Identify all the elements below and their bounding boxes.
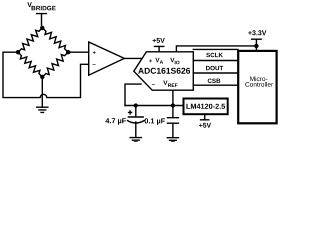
label LM4120-2.5 xyxy=(186,104,225,109)
wire lower interconnect xyxy=(193,84,238,86)
node VREF-C2 junction xyxy=(171,103,175,107)
wire bridge right node to op-amp non-inverting input xyxy=(68,51,88,53)
wire VIO pin to +3.3V rail xyxy=(176,46,256,52)
wire ADC minus input to VREF node xyxy=(125,84,141,105)
label Micro-Controller line1 xyxy=(250,76,267,81)
label VBRIDGE xyxy=(27,2,32,7)
wire bridge left node to op-amp inverting input xyxy=(3,52,89,97)
capacitor C2 0.1uF xyxy=(167,106,178,138)
resistor bridge R-botleft xyxy=(18,52,42,77)
wire CSB xyxy=(193,72,238,74)
label ADC minus pin xyxy=(152,83,155,86)
power terminal +5V (LM4120) xyxy=(200,114,210,120)
label DOUT xyxy=(206,66,223,70)
label VREF pin xyxy=(163,81,167,85)
wire VREF rail xyxy=(125,105,184,107)
resistor bridge R-botright xyxy=(42,52,68,77)
label 0.1uF xyxy=(145,118,165,125)
wire bridge bottom node to ground xyxy=(41,77,43,107)
IC LM4120-2.5 box xyxy=(184,99,228,115)
label ADC plus pin xyxy=(149,59,152,62)
power terminal VBRIDGE xyxy=(37,14,47,28)
ground bridge xyxy=(37,107,48,112)
node bridge bottom xyxy=(40,75,44,79)
power terminal +5V (ADC) xyxy=(154,46,163,51)
wire op-amp output to ADC xyxy=(124,57,142,59)
resistor bridge R-topright xyxy=(42,28,68,52)
wire DOUT xyxy=(193,60,238,62)
label VIO pin xyxy=(170,58,174,62)
IC ADC161S626 outline xyxy=(134,52,194,90)
node bridge top xyxy=(40,26,44,30)
block Micro-Controller box xyxy=(238,51,276,123)
ground C2 xyxy=(167,138,178,142)
resistor bridge R-topleft xyxy=(18,28,42,52)
label 4.7uF xyxy=(106,118,126,125)
node bridge right xyxy=(66,50,70,54)
ground C1 xyxy=(130,138,141,142)
op-amp plus sign xyxy=(93,51,96,54)
node +3.3V junction xyxy=(254,44,258,48)
label VA pin xyxy=(155,58,159,62)
op-amp U1 xyxy=(89,42,125,75)
label +3.3V xyxy=(248,30,266,35)
power terminal +3.3V xyxy=(252,39,262,46)
op-amp minus sign xyxy=(93,63,96,66)
node VREF-C1 junction xyxy=(134,103,138,107)
label +5V (ADC) xyxy=(153,38,165,43)
label ADC161S626 xyxy=(138,68,190,74)
label SCLK xyxy=(206,53,223,57)
label CSB xyxy=(208,79,221,83)
capacitor C1 4.7uF (polarized) xyxy=(128,106,143,138)
node bridge left xyxy=(16,50,20,54)
label Micro-Controller line2 xyxy=(245,82,273,87)
wire SCLK xyxy=(193,48,238,50)
label +5V (LM4120) xyxy=(199,123,211,128)
wire VREF pin stub xyxy=(172,90,174,105)
